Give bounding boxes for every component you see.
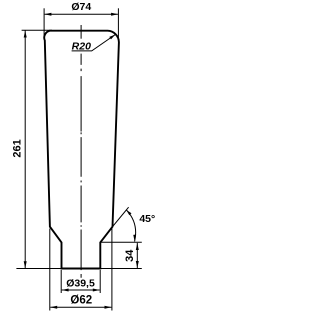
- dim261 extension top: [22, 29, 52, 31]
- bottom edge extension line left: [16, 268, 61, 270]
- arrow dim62 left: [50, 306, 57, 309]
- arrow dim34 bottom: [136, 261, 139, 268]
- arrow angle arc top: [126, 210, 131, 215]
- arrow dim39.5 left: [62, 289, 69, 292]
- arrow dim74 left: [44, 13, 51, 16]
- part outline: [44, 31, 119, 269]
- svg-text:Ø62: Ø62: [70, 295, 92, 307]
- dim74 extension right: [117, 8, 119, 40]
- svg-text:Ø39,5: Ø39,5: [66, 277, 95, 289]
- arrow R20 leader: [109, 35, 115, 40]
- dim74 extension left: [43, 8, 45, 39]
- dim261 line: [24, 31, 26, 269]
- dim39.5 extension left: [60, 270, 62, 293]
- arrow angle arc bottom: [133, 235, 136, 242]
- svg-text:34: 34: [124, 249, 136, 262]
- svg-text:261: 261: [11, 139, 23, 157]
- center line top segment: [80, 25, 82, 39]
- chamfer 45deg extension line: [113, 207, 129, 227]
- angle dim arc: [126, 210, 135, 242]
- dim62 extension right: [111, 229, 113, 311]
- leader R20: [72, 35, 116, 51]
- arrow dim39.5 right: [93, 289, 100, 292]
- dim39.5 extension right: [99, 270, 101, 293]
- dim39.5 line: [62, 289, 100, 291]
- arrow dim62 right: [105, 306, 112, 309]
- dim34 extension top: [101, 241, 142, 243]
- dim74 line: [45, 13, 118, 15]
- arrow dim261 bottom: [24, 261, 27, 268]
- svg-text:Ø74: Ø74: [71, 1, 91, 13]
- svg-text:R20: R20: [72, 41, 91, 53]
- center line axis dash-dot: [80, 54, 82, 278]
- dim62 extension left: [49, 229, 51, 311]
- dim62 line: [50, 306, 111, 308]
- dim34 line: [136, 243, 138, 268]
- arrow dim74 right: [111, 13, 118, 16]
- arrow dim261 top: [24, 31, 27, 38]
- svg-text:45°: 45°: [139, 213, 155, 225]
- bottom edge extension line right: [100, 268, 142, 270]
- arrow dim34 top: [136, 243, 139, 250]
